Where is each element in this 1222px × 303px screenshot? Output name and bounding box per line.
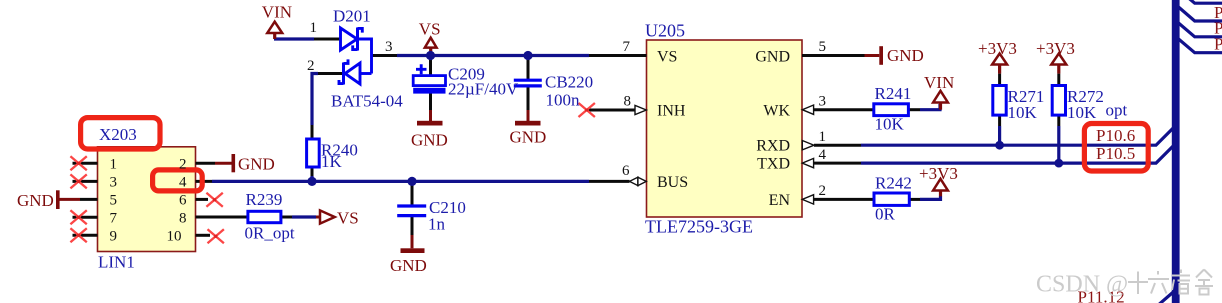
svg-text:6: 6 — [622, 163, 630, 179]
svg-text:GND: GND — [17, 191, 54, 210]
svg-text:LIN1: LIN1 — [98, 253, 135, 272]
svg-text:GND: GND — [411, 131, 448, 150]
svg-text:GND: GND — [887, 46, 924, 65]
svg-text:GND: GND — [390, 256, 427, 275]
svg-text:P10.5: P10.5 — [1096, 144, 1135, 163]
svg-text:CSDN @: CSDN @ — [1036, 272, 1128, 298]
svg-text:TXD: TXD — [757, 156, 790, 173]
svg-text:1: 1 — [310, 20, 318, 36]
svg-text:22µF/40V: 22µF/40V — [448, 80, 519, 99]
svg-text:4: 4 — [819, 147, 827, 163]
svg-text:GND: GND — [755, 49, 790, 66]
svg-text:4: 4 — [179, 175, 187, 191]
svg-text:7: 7 — [110, 211, 118, 227]
svg-text:6: 6 — [179, 193, 187, 209]
svg-text:0R: 0R — [875, 204, 896, 223]
svg-text:U205: U205 — [645, 21, 685, 41]
svg-text:RXD: RXD — [756, 138, 790, 155]
svg-text:2: 2 — [307, 58, 315, 74]
svg-text:P10.6: P10.6 — [1096, 126, 1135, 145]
svg-text:3: 3 — [385, 39, 393, 55]
svg-text:VS: VS — [337, 209, 359, 228]
svg-text:INH: INH — [657, 103, 686, 120]
svg-text:WK: WK — [763, 103, 790, 120]
svg-text:1: 1 — [819, 129, 827, 145]
svg-text:9: 9 — [110, 229, 118, 245]
svg-text:GND: GND — [238, 155, 275, 174]
svg-text:10K: 10K — [1067, 103, 1097, 122]
svg-text:TLE7259-3GE: TLE7259-3GE — [645, 217, 753, 237]
svg-text:10: 10 — [167, 229, 182, 245]
svg-text:2: 2 — [819, 183, 827, 199]
svg-text:R242: R242 — [875, 173, 912, 192]
svg-text:8: 8 — [624, 94, 632, 110]
svg-text:R239: R239 — [246, 190, 283, 209]
svg-text:BUS: BUS — [657, 174, 688, 191]
svg-text:D201: D201 — [333, 7, 371, 26]
svg-text:CB220: CB220 — [545, 73, 593, 92]
svg-text:VIN: VIN — [924, 73, 954, 92]
svg-text:VIN: VIN — [262, 3, 292, 22]
svg-text:5: 5 — [110, 193, 118, 209]
svg-text:R241: R241 — [875, 84, 912, 103]
svg-text:7: 7 — [623, 39, 631, 55]
svg-text:EN: EN — [769, 192, 791, 209]
svg-text:+3V3: +3V3 — [978, 39, 1017, 58]
svg-text:5: 5 — [819, 39, 827, 55]
svg-text:VS: VS — [657, 49, 677, 66]
svg-text:P1: P1 — [1214, 35, 1222, 54]
svg-text:X203: X203 — [99, 125, 137, 144]
svg-text:100n: 100n — [546, 91, 581, 110]
svg-text:+3V3: +3V3 — [1036, 39, 1075, 58]
svg-text:1K: 1K — [321, 152, 343, 171]
svg-text:1: 1 — [110, 157, 118, 173]
svg-text:+3V3: +3V3 — [919, 164, 958, 183]
svg-text:BAT54-04: BAT54-04 — [331, 92, 403, 111]
svg-text:3: 3 — [819, 94, 827, 110]
svg-text:2: 2 — [179, 157, 187, 173]
svg-text:GND: GND — [510, 128, 547, 147]
svg-text:10K: 10K — [875, 114, 905, 133]
svg-text:3: 3 — [110, 175, 118, 191]
svg-text:1n: 1n — [428, 215, 446, 234]
svg-text:10K: 10K — [1008, 103, 1038, 122]
svg-text:0R_opt: 0R_opt — [245, 224, 295, 243]
svg-text:opt: opt — [1106, 101, 1128, 120]
svg-text:8: 8 — [179, 211, 187, 227]
svg-text:VS: VS — [419, 20, 441, 39]
